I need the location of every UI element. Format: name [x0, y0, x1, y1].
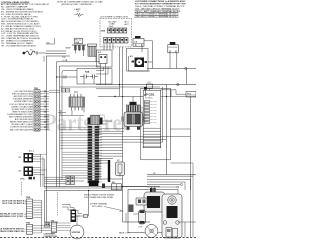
conn row 8 — [88, 144, 92, 146]
K2 side pins — [132, 61, 135, 63]
svg-text:BATT CHG NEG (BLK/WH): BATT CHG NEG (BLK/WH) — [10, 128, 33, 131]
wire y96.5 right — [161, 96, 196, 98]
fuse block cap — [170, 42, 176, 45]
svg-text:TRACK TERM START SW +: TRACK TERM START SW + — [0, 230, 26, 233]
diode D2 — [66, 89, 70, 93]
vertical x44 short — [43, 56, 45, 62]
svg-text:FB: FB — [169, 211, 173, 215]
conn row 1 — [88, 126, 92, 128]
relay K1 box — [97, 50, 113, 67]
bus y84.5 — [96, 84, 196, 86]
terminal squares row 1 — [108, 28, 111, 33]
conn bottom block — [89, 181, 99, 187]
wire legend to gov 3 — [46, 55, 70, 57]
svg-text:TB4 - AC2 CONNECT TERMINAL BLO: TB4 - AC2 CONNECT TERMINAL BLOCK — [136, 15, 178, 18]
engine panel top wires — [45, 176, 67, 178]
connector J5 above governor — [75, 38, 83, 44]
ignition body — [124, 112, 143, 127]
svg-text:TB-4C - BATT CHARGER TERMINAL: TB-4C - BATT CHARGER TERMINAL BLOCK — [136, 10, 181, 13]
AB box — [112, 184, 122, 190]
TB1 row 9 — [34, 112, 40, 114]
cluster jog wires to risers — [41, 153, 47, 155]
conn row 19 — [88, 173, 92, 175]
conn row 13 — [88, 157, 92, 159]
vert x171 — [170, 90, 172, 97]
uP CB1 outer box — [141, 88, 171, 160]
svg-text:FW: FW — [150, 201, 155, 205]
bottom dashed border — [0, 237, 196, 239]
svg-text:GOV: GOV — [66, 48, 71, 50]
relay contacts b — [92, 75, 94, 79]
uP pin 4 — [144, 110, 150, 112]
svg-text:12V: 12V — [62, 57, 66, 59]
CC drop wire — [149, 89, 151, 91]
svg-text:WATER TEMP SEND (VIO): WATER TEMP SEND (VIO) — [10, 121, 34, 124]
svg-text:AUX GROUND (BLK): AUX GROUND (BLK) — [15, 118, 34, 121]
TB1 row 1 — [34, 92, 40, 94]
bus corner x62 — [62, 71, 77, 151]
K3 relay body — [70, 94, 72, 97]
svg-text:PAGE 1 OF 2: PAGE 1 OF 2 — [119, 232, 130, 235]
conn row 12 — [88, 155, 92, 157]
bus y88.8 — [96, 88, 120, 90]
wire y129 right — [170, 128, 190, 130]
bundle wires — [100, 136, 191, 138]
svg-text:BATT CHARGE (RED/WHT): BATT CHARGE (RED/WHT) — [9, 116, 33, 119]
TB2 row 3 — [27, 205, 33, 207]
central connector header — [88, 118, 91, 125]
svg-text:15 A: 15 A — [109, 25, 114, 28]
pulley circle — [145, 225, 158, 238]
svg-text:STATOR: STATOR — [72, 231, 81, 234]
wire y96.5 — [98, 96, 144, 98]
conn row 17 — [88, 168, 92, 170]
svg-text:(B): (B) — [47, 42, 50, 44]
svg-text:TB4 - AC1 CONNECT TERMINAL BLO: TB4 - AC1 CONNECT TERMINAL BLOCK — [136, 13, 178, 16]
long wire y68.5 — [147, 68, 196, 70]
customer connection dashed box — [100, 18, 132, 47]
TB2 row 8 — [27, 218, 33, 220]
svg-text:A 2-1: A 2-1 — [29, 150, 35, 153]
conn row 6 — [88, 139, 92, 141]
vert x186.5 — [186, 69, 188, 85]
legend right boxed row 3 — [135, 15, 178, 18]
FW wires up — [151, 187, 153, 189]
dashed inner drop — [57, 192, 59, 216]
ignition cap — [130, 102, 137, 105]
TB1 row 8 — [34, 109, 40, 111]
TB1 contact ticks — [43, 90, 45, 92]
svg-text:CUSTOMER CONNECTIONS @ A REMOT: CUSTOMER CONNECTIONS @ A REMOTE ASSY — [135, 0, 186, 3]
TB1 row 6 — [34, 104, 40, 106]
TB2 row 6 — [27, 213, 33, 215]
wire legend to gov 1 — [46, 50, 66, 52]
wire TB to right riser — [144, 40, 153, 42]
TB1 row 2 — [34, 94, 40, 96]
svg-text:30A: 30A — [75, 41, 79, 44]
wire stub top left — [46, 43, 55, 45]
TB1 row 15 — [34, 127, 40, 129]
wire F1 to trio — [39, 52, 47, 54]
terminal squares row 2 — [104, 38, 108, 44]
svg-text:12L/P CON (TO BATT 4L): 12L/P CON (TO BATT 4L) — [2, 202, 26, 205]
left dark block — [129, 205, 134, 213]
small connector on bus left of AB — [102, 184, 105, 189]
engine right wires — [178, 221, 196, 223]
wire y222 into engine — [123, 221, 151, 223]
svg-text:NOT USED): NOT USED) — [92, 206, 103, 208]
K3 wire down — [71, 111, 73, 116]
TB1 strip — [34, 90, 40, 131]
ign tick column right — [147, 100, 150, 102]
link connector — [84, 214, 88, 217]
TB1 row 3 — [34, 97, 40, 99]
wire legend to gov 2 — [46, 53, 66, 55]
fuel solenoid cylinder — [88, 44, 97, 46]
ignition cap feed — [132, 97, 134, 102]
uP pin 7 — [144, 119, 150, 121]
legend right boxed row 1 — [135, 10, 178, 13]
TB1 row 16 — [34, 130, 40, 132]
relay coil pins bottom — [83, 79, 85, 85]
stub up x145.5 — [145, 89, 147, 97]
junction dots — [119, 84, 120, 85]
vertical x56.5 down — [56, 62, 58, 187]
svg-text:R2A: R2A — [85, 71, 90, 74]
wires into grid left mid — [63, 151, 89, 153]
fuse pins down — [169, 53, 171, 69]
TB above K2 — [133, 39, 144, 47]
LOP wire — [133, 213, 139, 215]
TB3 strip — [27, 224, 33, 234]
relay contacts a — [83, 75, 85, 79]
svg-text:+12A: +12A — [62, 59, 68, 62]
thick bus y174.8 — [147, 174, 196, 176]
lamp stem — [78, 16, 80, 18]
thick black bar below grid — [108, 160, 110, 182]
wire y89.8 stepped to REG — [161, 90, 186, 94]
uP ladder rows — [143, 127, 161, 129]
ignition feet — [127, 127, 130, 130]
TB1 feeder wires right — [49, 89, 60, 91]
fan wires left of grid — [60, 126, 88, 128]
K1 pins to bus — [100, 67, 102, 85]
fuel pump canister — [116, 162, 125, 176]
diode D1 — [62, 89, 66, 93]
svg-text:AUX PWR OUT (ORG): AUX PWR OUT (ORG) — [14, 95, 34, 98]
conn row 4 — [88, 134, 92, 136]
conn row 5 — [88, 136, 92, 138]
contact symbol on wire — [63, 76, 65, 79]
right stair wires — [147, 179, 191, 181]
legend right boxed row 2 — [135, 13, 178, 16]
TB3 row 3 — [27, 231, 33, 233]
TB2 strip — [27, 199, 33, 219]
svg-text:12 VDC: 12 VDC — [145, 98, 153, 100]
conn row 14 — [88, 160, 92, 162]
TB1 row 4 — [34, 99, 40, 101]
starter top rings — [168, 196, 176, 204]
bolt rings — [163, 221, 167, 225]
TB2 row 5 — [27, 210, 33, 212]
conn row 2 — [88, 129, 92, 131]
svg-text:A WIRE COOLANT (TAN): A WIRE COOLANT (TAN) — [11, 105, 33, 108]
engine panel top connector boxes — [66, 176, 70, 185]
FW dark box — [147, 196, 160, 208]
mid horizontals into ign — [98, 128, 124, 130]
uP pin 5 — [144, 113, 150, 115]
riser x62.5 — [61, 150, 63, 180]
uP pin 8 — [144, 122, 150, 124]
TB1 row 14 — [34, 125, 40, 127]
wires TB3 to strip — [42, 225, 52, 227]
engine panel box — [45, 190, 123, 192]
ignition side lugs — [121, 117, 124, 122]
wire top of relay box — [60, 65, 101, 67]
ignition right stubs — [143, 114, 147, 116]
TB3 row 1 — [27, 226, 33, 228]
note arrow — [104, 207, 122, 211]
LOP sensor capsule — [139, 210, 146, 224]
svg-text:LPG: LPG — [20, 179, 25, 181]
flywheel FW body — [144, 192, 165, 212]
watermark globe logo — [129, 107, 149, 127]
TB2 row 7 — [27, 215, 33, 217]
stair connector — [71, 210, 77, 223]
TB1 row 13 — [34, 122, 40, 124]
vertical x152.5 top — [152, 41, 154, 69]
conn row 20 — [88, 176, 92, 178]
FW top connector — [150, 188, 153, 192]
svg-text:REMOTE START (WHT): REMOTE START (WHT) — [12, 110, 33, 113]
wire K2 right — [148, 61, 153, 63]
conn row 15 — [88, 163, 92, 165]
conn row 7 — [88, 142, 92, 144]
cluster2 wires — [33, 167, 41, 169]
svg-text:µP CB1: µP CB1 — [144, 93, 155, 97]
K2 square relay body — [135, 58, 145, 68]
cluster1 wires — [33, 153, 41, 155]
wires AB — [122, 186, 148, 188]
uP pin 2 — [144, 104, 150, 106]
vertical bus x122.5 — [122, 47, 124, 222]
bus y87 — [60, 86, 160, 88]
TB1 row 10 — [34, 115, 40, 117]
stator circle — [70, 225, 84, 239]
TB3 row 2 — [27, 228, 33, 230]
wires from cust box to K1 — [103, 44, 105, 51]
conn row 21 — [88, 178, 92, 180]
TB3 row 4 — [27, 233, 33, 235]
nested corner boxes below K1 — [96, 67, 104, 71]
starter main unit — [162, 194, 182, 238]
ignition connector — [127, 105, 141, 112]
stator top link — [88, 191, 90, 217]
svg-text:GROUND, BATT (-) (BLK): GROUND, BATT (-) (BLK) — [11, 123, 33, 126]
conn row 18 — [88, 171, 92, 173]
uP pin 3 — [144, 107, 150, 109]
switch S1M label — [135, 36, 141, 38]
governor actuator pins — [72, 44, 86, 46]
wires grid to FP — [99, 160, 108, 162]
conn row 9 — [88, 147, 92, 149]
conn row 3 — [88, 131, 92, 133]
svg-text:4-05: 4-05 — [120, 211, 124, 213]
relay box R2A — [77, 69, 112, 85]
uP CB1 box — [143, 90, 161, 148]
LPG dashed drop — [21, 182, 23, 196]
fuse block body — [168, 45, 179, 53]
TB1 row 11 — [34, 117, 40, 119]
+12A bus wire — [57, 61, 101, 63]
vert x190.5 — [190, 97, 192, 238]
svg-text:A WIRE START (YEL): A WIRE START (YEL) — [15, 100, 34, 103]
vert x193 — [192, 163, 194, 237]
K2 bottom wire — [128, 56, 130, 71]
FP enclosure — [100, 158, 113, 160]
TB1 row 7 — [34, 107, 40, 109]
stair wires — [62, 205, 82, 214]
oil switch box in engine — [136, 198, 147, 205]
grid right stubs — [99, 120, 112, 122]
conn row 22 — [88, 181, 92, 183]
gov pin wires down — [74, 50, 76, 54]
wire into relay box — [57, 76, 77, 78]
conn row 10 — [88, 150, 92, 152]
wires to bus from boxes — [75, 177, 89, 179]
regulator box right — [186, 92, 196, 98]
cluster risers — [40, 154, 42, 187]
wire y163 — [170, 162, 193, 164]
TB2 row 1 — [27, 200, 33, 202]
TB1 row 12 — [34, 120, 40, 122]
svg-text:COMMON ALARM OUT (GRY): COMMON ALARM OUT (GRY) — [7, 113, 33, 116]
engine box outline — [128, 190, 178, 233]
TB2 row 4 — [27, 208, 33, 210]
svg-text:POWER RELAY VOLT (CUST +): POWER RELAY VOLT (CUST +) — [0, 215, 26, 218]
vertical bus x119.5 — [119, 47, 121, 97]
bottom small boxes — [166, 228, 172, 238]
relay K2 box — [127, 49, 149, 72]
svg-text:VR - VOLTAGE REGULATOR ASSY: VR - VOLTAGE REGULATOR ASSY — [1, 44, 37, 47]
vert x162.5 — [162, 87, 164, 142]
K1 inner relay — [99, 55, 107, 64]
vertical bus x46.5 — [46, 56, 48, 222]
uP pin 6 — [144, 116, 150, 118]
conn row 11 — [88, 152, 92, 154]
TB1 row 5 — [34, 102, 40, 104]
svg-text:UNLESS NOTED OTHERWISE: UNLESS NOTED OTHERWISE — [61, 4, 92, 6]
conn row 16 — [88, 165, 92, 167]
vertical x59.5 down — [59, 66, 61, 187]
uP pin 1 — [144, 101, 150, 103]
TB2/3 riser — [41, 200, 43, 233]
FB dark box — [167, 206, 178, 218]
tiny meter left of strip — [45, 223, 50, 228]
F1 end marks — [35, 52, 37, 55]
bus y186.5 full — [44, 186, 160, 188]
K3 pins bottom — [71, 107, 73, 111]
vert x166.5 — [166, 85, 168, 175]
vertical from solenoid — [95, 56, 97, 62]
TB2 row 2 — [27, 203, 33, 205]
